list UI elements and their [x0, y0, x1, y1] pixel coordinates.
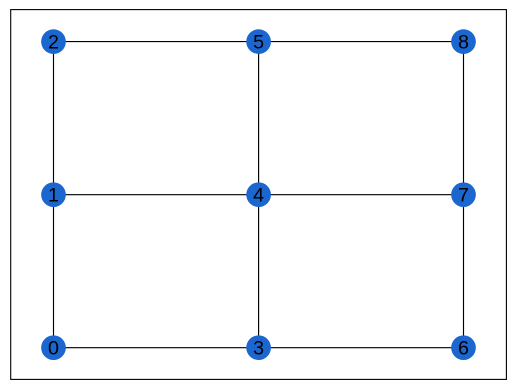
svg-text:7: 7	[458, 184, 469, 206]
wire edge 3-6	[259, 347, 464, 349]
wire edge 0-1	[53, 195, 55, 348]
svg-text:5: 5	[253, 31, 264, 53]
wire edge 5-8	[259, 41, 464, 43]
node 0	[41, 335, 66, 360]
svg-text:2: 2	[48, 31, 59, 53]
svg-text:8: 8	[458, 31, 469, 53]
svg-text:3: 3	[253, 337, 264, 359]
node 3	[246, 335, 271, 360]
svg-text:0: 0	[48, 337, 59, 359]
svg-text:6: 6	[458, 337, 469, 359]
wire edge 0-3	[54, 347, 259, 349]
wire edge 6-7	[463, 195, 465, 348]
node 5	[246, 29, 271, 54]
wire edge 1-2	[53, 42, 55, 195]
node 6	[451, 335, 476, 360]
wire edge 4-7	[259, 194, 464, 196]
node 4	[246, 182, 271, 207]
node 2	[41, 29, 66, 54]
wire edge 3-4	[258, 195, 260, 348]
node 1	[41, 182, 66, 207]
node 8	[451, 29, 476, 54]
wire edge 2-5	[54, 41, 259, 43]
svg-text:4: 4	[253, 184, 264, 206]
wire edge 1-4	[54, 194, 259, 196]
node 7	[451, 182, 476, 207]
svg-text:1: 1	[48, 184, 59, 206]
wire edge 7-8	[463, 42, 465, 195]
wire edge 4-5	[258, 42, 260, 195]
